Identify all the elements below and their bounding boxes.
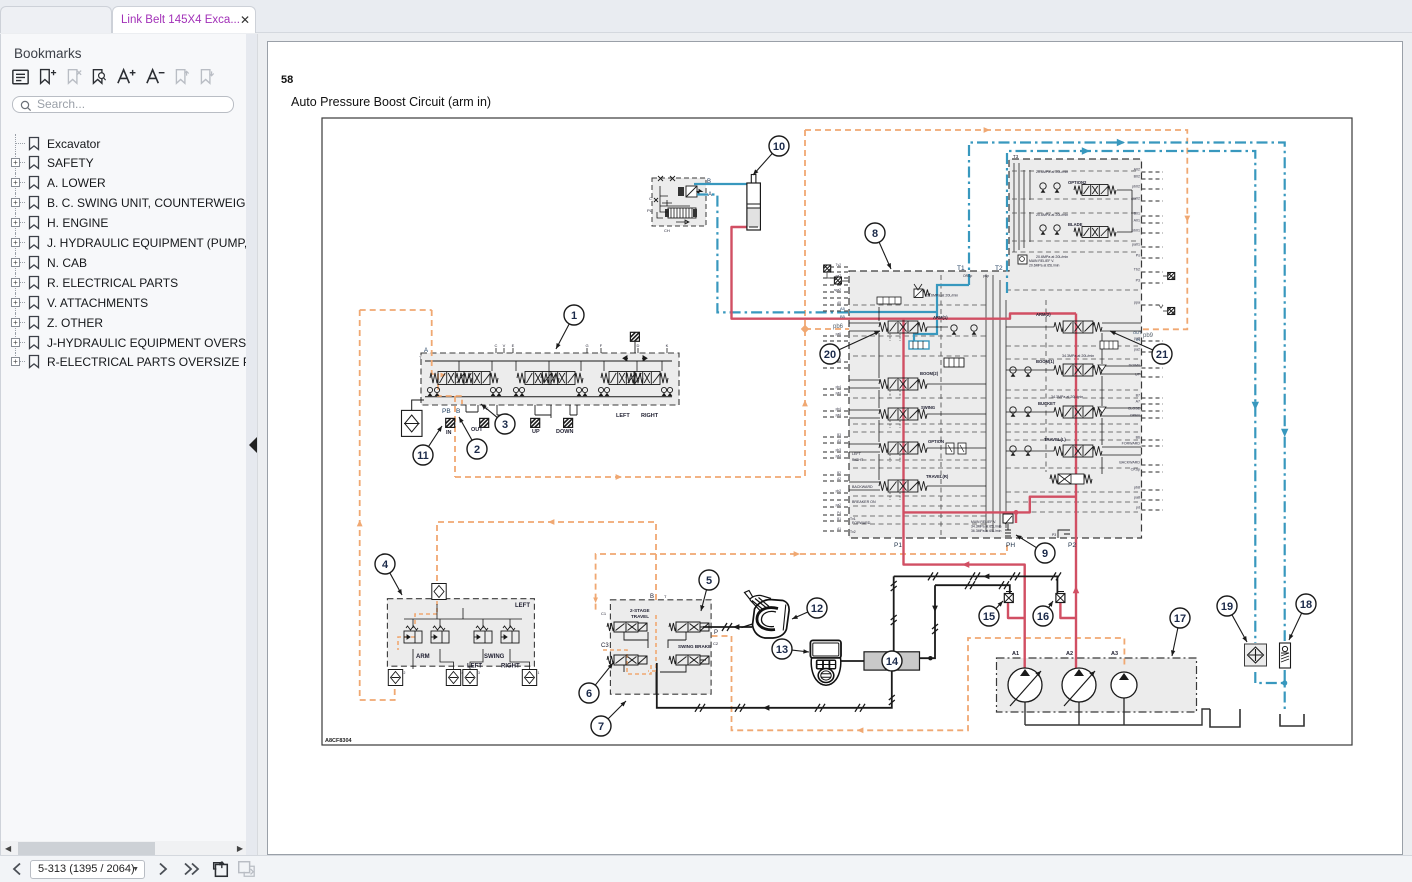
relief pair blade: [1040, 225, 1046, 231]
svg-text:pb2: pb2: [836, 489, 842, 493]
svg-text:34.3MPa at 20L/min: 34.3MPa at 20L/min: [1062, 354, 1094, 358]
spool BOOM(2): [879, 378, 927, 390]
wire: red link between P1 and P2 galleries: [904, 497, 1077, 513]
wire: cable from controller 13 to 14: [840, 660, 864, 662]
return filter 19: [1245, 644, 1267, 666]
balloon 18: [1289, 594, 1316, 640]
svg-text:RIGHT: RIGHT: [852, 458, 864, 462]
svg-text:PL: PL: [647, 208, 653, 213]
balloon 8: [865, 223, 891, 269]
arm holding valve: [909, 341, 929, 349]
balloon 1: [556, 305, 584, 349]
svg-text:12: 12: [811, 603, 823, 615]
svg-text:B01: B01: [1134, 212, 1140, 216]
svg-text:A5: A5: [840, 306, 846, 311]
wire: orange pilot loop to pilot valve 4: [437, 522, 656, 600]
svg-text:B1: B1: [837, 517, 841, 521]
svg-text:A3: A3: [1111, 651, 1118, 657]
svg-text:pb4: pb4: [836, 385, 842, 389]
wire: blue line B from boost valve to cylinder: [694, 183, 747, 185]
svg-text:20.6MPa at 20L/min: 20.6MPa at 20L/min: [1036, 170, 1068, 174]
solenoid valve assembly (2-stage travel / swing brake): [610, 600, 711, 694]
solenoid valve 5 (travel speed, right): [669, 622, 709, 632]
svg-text:A2: A2: [837, 477, 841, 481]
svg-text:MAIN RELIEF V.: MAIN RELIEF V.: [971, 520, 996, 524]
svg-text:B02: B02: [1134, 175, 1140, 179]
svg-text:pb3: pb3: [836, 448, 842, 452]
svg-text:B6: B6: [1136, 436, 1140, 440]
pilot cap UP: [531, 418, 540, 427]
svg-text:20.6MPa at 20L/min: 20.6MPa at 20L/min: [1036, 213, 1068, 217]
svg-text:34.3MPa at 20L/min: 34.3MPa at 20L/min: [1051, 395, 1083, 399]
svg-text:LEFT: LEFT: [515, 603, 530, 609]
svg-text:pa8: pa8: [1134, 496, 1140, 500]
wire: hose from pump line to solenoid valve 16: [894, 576, 1058, 593]
svg-text:A: A: [424, 348, 428, 354]
upper block verticals: [1014, 163, 1030, 252]
svg-text:TRAVEL: TRAVEL: [631, 614, 649, 619]
main valve left port stubs: [823, 267, 849, 531]
spool OPTION: [879, 442, 927, 454]
plug fittings right of main valve: [1168, 273, 1175, 280]
check valves (arm section): [951, 325, 957, 331]
wire: red internal feed P2: [1075, 314, 1077, 671]
svg-text:FORWARD: FORWARD: [852, 521, 871, 525]
svg-text:OUT: OUT: [471, 427, 483, 433]
svg-text:LEFT: LEFT: [852, 452, 862, 456]
wire: hose from travel solenoid to pedal 12: [703, 626, 752, 628]
solenoid valve 2-stage travel (left): [607, 622, 647, 632]
svg-text:BREAKER ON: BREAKER ON: [852, 500, 876, 504]
port P4 bracket: [1058, 530, 1070, 538]
svg-text:2: 2: [474, 444, 480, 456]
svg-text:IN: IN: [446, 430, 452, 436]
svg-text:D: D: [637, 343, 640, 348]
svg-text:LEFT: LEFT: [616, 413, 630, 419]
svg-text:B: B: [707, 179, 711, 185]
svg-text:34.3MPa at 65L/min: 34.3MPa at 65L/min: [971, 525, 1001, 529]
svg-text:pSp: pSp: [983, 274, 989, 278]
load check (boom2): [944, 358, 964, 367]
svg-text:G: G: [585, 343, 588, 348]
svg-text:TRAVEL(R): TRAVEL(R): [926, 474, 949, 479]
svg-text:pa02: pa02: [1132, 197, 1140, 201]
svg-text:ARM(2): ARM(2): [1036, 312, 1051, 317]
wire: orange pilot from PH to solenoid valve C1: [596, 545, 1007, 611]
balloon 4: [375, 554, 402, 595]
svg-text:8: 8: [872, 228, 878, 240]
svg-text:A2: A2: [1066, 651, 1073, 657]
pump assembly 17: [997, 658, 1197, 712]
wire: orange pilot top line to pb9: [805, 130, 1187, 329]
right column bus lines: [1006, 327, 1102, 474]
svg-text:P1: P1: [894, 542, 902, 549]
check valves boom1: [1010, 367, 1016, 373]
main relief (dozer): [1018, 255, 1027, 264]
svg-text:C2: C2: [713, 641, 719, 646]
check valve 18: [1280, 643, 1291, 668]
svg-text:20: 20: [824, 349, 836, 361]
balloon 17: [1170, 608, 1190, 656]
svg-text:OPTION2: OPTION2: [1068, 180, 1087, 185]
svg-text:21: 21: [1156, 349, 1168, 361]
svg-text:A7: A7: [1136, 400, 1140, 404]
wire: red link solenoid 16 to pump A2 line: [1060, 603, 1076, 618]
svg-text:OPEN: OPEN: [1130, 414, 1141, 418]
svg-text:21.6MPa at 20L/min: 21.6MPa at 20L/min: [926, 294, 958, 298]
svg-text:TRAVEL(L): TRAVEL(L): [1044, 437, 1066, 442]
svg-text:sga2: sga2: [834, 288, 841, 292]
svg-text:CKSp: CKSp: [1131, 468, 1140, 472]
left column bus lines: [879, 307, 986, 486]
wire: orange pilot supply from pump A3 to port P: [712, 636, 1125, 730]
svg-text:ARM: ARM: [416, 654, 430, 660]
travel straight spool: [1058, 474, 1084, 484]
svg-text:1: 1: [571, 310, 577, 322]
svg-text:19: 19: [1221, 601, 1233, 613]
filter 11 (pilot line filter): [402, 410, 423, 436]
solenoid valve 15: [1004, 594, 1013, 603]
svg-text:pd: pd: [1136, 506, 1140, 510]
svg-text:RIGHT: RIGHT: [641, 413, 659, 419]
svg-text:pa4: pa4: [836, 413, 842, 417]
balloon 10: [753, 136, 789, 175]
svg-text:IN: IN: [1136, 337, 1140, 342]
svg-text:PH: PH: [1006, 542, 1015, 549]
pump A3 (gear): [1111, 672, 1137, 698]
svg-text:A: A: [708, 192, 712, 198]
svg-text:pb9: pb9: [1143, 333, 1154, 339]
svg-text:14: 14: [886, 656, 899, 668]
balloon 19: [1217, 596, 1247, 642]
wire: hose to solenoid valve 15: [935, 585, 1010, 594]
svg-text:pa4: pa4: [836, 391, 842, 395]
svg-text:DOWN: DOWN: [1129, 364, 1141, 368]
svg-text:Tv2: Tv2: [836, 263, 842, 267]
UP/DOWN pilot bracket: [497, 405, 577, 418]
svg-text:pb6: pb6: [833, 324, 844, 330]
svg-text:Tb2: Tb2: [1134, 268, 1140, 272]
wire: orange pilot line left loop: [360, 310, 432, 700]
wire: orange pilot inside pilot valve block 4: [398, 601, 437, 650]
solenoid valve 6 (left lower): [607, 655, 647, 665]
svg-text:5: 5: [706, 575, 712, 587]
svg-text:36.3MPa at 65L/min: 36.3MPa at 65L/min: [971, 529, 1001, 533]
svg-text:ARM(1): ARM(1): [933, 315, 948, 320]
balloon 2: [459, 417, 487, 459]
svg-text:20.6MPa at 65L/min: 20.6MPa at 65L/min: [1029, 264, 1059, 268]
spool TRAVEL(L): [1054, 445, 1102, 457]
wire: red internal feed P1: [904, 319, 1025, 670]
balloon 7: [591, 701, 626, 736]
svg-text:B: B: [650, 594, 654, 600]
svg-text:SWING: SWING: [921, 405, 935, 410]
svg-text:T3: T3: [1013, 154, 1019, 159]
upper block dashed passages: [1012, 171, 1138, 252]
svg-text:pa2: pa2: [836, 503, 842, 507]
pilot cap OUT: [480, 418, 489, 427]
balloon 5: [699, 570, 719, 611]
spool ARM(1) 20: [879, 321, 927, 333]
wire: red link solenoid 15 to pump A1 line: [1008, 603, 1025, 618]
svg-text:B2: B2: [837, 471, 841, 475]
svg-text:B7: B7: [1136, 394, 1140, 398]
solenoid valve 16: [1056, 594, 1065, 603]
svg-text:CH: CH: [664, 228, 670, 233]
wire: red line from boost cylinder to main valve ARM2: [732, 227, 1077, 319]
svg-text:3: 3: [478, 671, 480, 675]
wire: orange pilot through control valve 1 to port B: [432, 310, 462, 477]
balloon 14: [882, 651, 902, 671]
spool OPTION2: [1074, 185, 1116, 196]
svg-text:BUCKET: BUCKET: [1038, 401, 1056, 406]
balloon 13: [772, 639, 809, 659]
svg-text:17: 17: [1174, 613, 1186, 625]
svg-text:A3: A3: [837, 439, 841, 443]
svg-text:A02: A02: [1134, 168, 1140, 172]
wire: orange pilot line to main valve pb6: [455, 130, 849, 477]
pilot valves SWING: [474, 625, 492, 643]
spool BUCKET: [1054, 406, 1102, 418]
svg-text:SWING: SWING: [484, 654, 505, 660]
spool section arm/boom (block 1): [430, 372, 472, 385]
tank (return reservoir): [1280, 714, 1304, 726]
svg-text:OUT: OUT: [1133, 330, 1142, 335]
left column work port lines: [849, 323, 880, 490]
pump A1 (variable): [1008, 668, 1042, 702]
svg-text:9: 9: [1042, 548, 1048, 560]
spool BLADE: [1074, 227, 1116, 238]
wire: hose down to pressure switch 14: [893, 576, 895, 651]
svg-text:ppa: ppa: [1134, 301, 1140, 305]
svg-text:A01: A01: [1134, 219, 1140, 223]
svg-text:P4: P4: [837, 511, 841, 515]
boost valve assembly (top): [647, 176, 706, 233]
svg-text:4: 4: [382, 559, 389, 571]
svg-text:V: V: [503, 343, 506, 348]
svg-text:pa01: pa01: [1132, 243, 1140, 247]
svg-text:ORSp: ORSp: [963, 274, 972, 278]
check valves travel-L: [1010, 446, 1016, 452]
svg-text:T1: T1: [957, 265, 965, 272]
filter on block 4: [432, 584, 446, 600]
pilot valve assembly 4 (arm/swing levers): [387, 599, 534, 667]
svg-text:E: E: [512, 343, 515, 348]
svg-text:LEFT: LEFT: [467, 664, 482, 670]
tank gallery (center): [986, 275, 1006, 532]
svg-text:P: P: [714, 630, 718, 636]
svg-text:Ps: Ps: [1136, 254, 1140, 258]
svg-text:P2: P2: [1068, 542, 1076, 549]
balloon 12: [792, 598, 827, 619]
svg-text:T2: T2: [995, 265, 1003, 272]
main valve right port stubs: [1142, 172, 1164, 510]
svg-text:MAIN RELIEF V.: MAIN RELIEF V.: [1029, 259, 1054, 263]
wire: blue passage inside main valve to arm holding valve: [849, 285, 969, 349]
svg-text:7: 7: [598, 721, 604, 733]
check valves bucket: [1010, 407, 1016, 413]
svg-text:SWING BRAKE: SWING BRAKE: [678, 644, 711, 649]
wire: blue return line T1 to filter 19: [969, 143, 1285, 642]
wire: pump suction lines to tank: [1025, 698, 1210, 725]
svg-text:13: 13: [776, 644, 788, 656]
junction box 14: [864, 652, 920, 670]
svg-text:1: 1: [538, 671, 540, 675]
wire: hose from 14 right side: [920, 585, 936, 658]
svg-text:2-STAGE: 2-STAGE: [630, 608, 650, 613]
svg-text:BACKWARD: BACKWARD: [1119, 461, 1140, 465]
svg-text:B: B: [456, 408, 460, 415]
spool section swing/bucket (block 1): [517, 372, 559, 385]
solenoid valve swing brake (right lower): [669, 655, 709, 665]
svg-text:UP: UP: [1135, 373, 1141, 377]
port labels block 1 top: [495, 348, 497, 353]
svg-text:pa2: pa2: [1134, 348, 1140, 352]
svg-text:6: 6: [586, 688, 592, 700]
main relief valve 9: [1003, 514, 1013, 523]
spool ARM(2) 21: [1054, 321, 1102, 333]
svg-text:OPTION: OPTION: [928, 439, 944, 444]
svg-text:CLOSE: CLOSE: [1128, 407, 1141, 411]
svg-text:C3: C3: [601, 643, 609, 649]
right column work port lines: [1102, 323, 1141, 455]
svg-text:pb8: pb8: [1134, 486, 1140, 490]
svg-text:pb01: pb01: [1132, 229, 1140, 233]
balloon 16: [1033, 601, 1053, 626]
controller unit 13: [810, 640, 841, 685]
svg-text:A5: A5: [837, 301, 841, 305]
check valves under block 1 sections: [427, 387, 432, 392]
balloon 20: [820, 331, 880, 364]
main control valve 8 body: [849, 159, 1142, 538]
pilot cap D (dozer): [630, 332, 639, 341]
svg-text:PB: PB: [442, 408, 451, 415]
svg-text:A8CF8304: A8CF8304: [325, 738, 353, 744]
svg-text:P3: P3: [1052, 533, 1056, 537]
svg-text:3: 3: [502, 419, 508, 431]
svg-text:K: K: [666, 343, 669, 348]
svg-text:2: 2: [404, 671, 406, 675]
svg-text:C: C: [649, 196, 652, 201]
svg-text:DOWN: DOWN: [556, 429, 573, 435]
spool SWING: [879, 408, 927, 420]
schematic frame: [322, 118, 1352, 745]
svg-text:Tv2: Tv2: [850, 530, 856, 534]
wire: blue return line T2 to check valve 18: [1007, 151, 1255, 643]
svg-text:FORWARD: FORWARD: [1122, 442, 1141, 446]
pilot cap DOWN: [564, 418, 573, 427]
balloon 6: [579, 663, 613, 703]
check valve fittings under block 4: [388, 670, 402, 686]
pilot valves ARM: [404, 625, 422, 643]
spool TRAVEL(R): [879, 480, 927, 492]
svg-text:16: 16: [1037, 611, 1049, 623]
internal passages (dashed): [853, 275, 1138, 535]
svg-text:BACKWARD: BACKWARD: [852, 485, 873, 489]
svg-text:B5: B5: [840, 314, 846, 319]
foot pedal 12 (travel speed pedal): [742, 591, 790, 639]
relief valve (left column top): [914, 289, 923, 298]
svg-text:BOOM(1): BOOM(1): [1036, 359, 1055, 364]
balloon 21: [1110, 331, 1172, 364]
svg-text:P3: P3: [1136, 279, 1140, 283]
control valve assembly 1: [421, 353, 679, 405]
wire: blue dash-dot line A from boost valve to main valve port A5: [697, 195, 849, 313]
tank (hydraulic reservoir): [1210, 709, 1240, 727]
plug fittings left of main valve: [824, 265, 831, 272]
balloon 3: [481, 404, 515, 434]
svg-text:15: 15: [983, 611, 995, 623]
svg-text:C1: C1: [601, 611, 607, 616]
balloon 11: [413, 426, 442, 465]
svg-text:Tv1: Tv1: [850, 517, 856, 521]
balloon 9: [1016, 535, 1055, 563]
svg-text:pb02: pb02: [1132, 185, 1140, 189]
svg-text:BLADE: BLADE: [1068, 222, 1083, 227]
spool section travel (block 1): [601, 372, 643, 385]
svg-text:pb4: pb4: [836, 407, 842, 411]
svg-text:A1: A1: [837, 527, 841, 531]
pump A2 (variable): [1062, 668, 1096, 702]
svg-text:B3: B3: [837, 433, 841, 437]
svg-text:A1: A1: [1012, 651, 1019, 657]
svg-text:pa6: pa6: [836, 332, 842, 336]
svg-text:18: 18: [1300, 599, 1312, 611]
svg-text:BOOM(2): BOOM(2): [920, 371, 939, 376]
pilot cap IN: [446, 418, 455, 427]
spool BOOM(1): [1054, 364, 1102, 376]
balloon 15: [979, 601, 1003, 626]
wire: return hose from 14 to solenoid block: [657, 663, 892, 708]
svg-text:C: C: [495, 343, 498, 348]
svg-text:pa3: pa3: [836, 454, 842, 458]
svg-text:UP: UP: [532, 429, 540, 435]
wire: orange pilot inside solenoid block: [603, 615, 656, 674]
svg-text:11: 11: [417, 450, 429, 462]
svg-text:10: 10: [773, 141, 785, 153]
boost cylinder 10: [747, 175, 761, 231]
svg-text:RIGHT: RIGHT: [501, 664, 520, 670]
